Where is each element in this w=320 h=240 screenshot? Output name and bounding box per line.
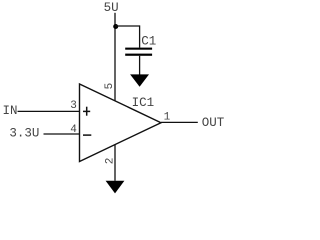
svg-text:C1: C1 [141,35,156,49]
wire C1 top stem (vertical) [139,25,141,47]
svg-text:IN: IN [3,104,18,118]
junction dot [113,24,118,29]
svg-text:3: 3 [70,100,77,112]
svg-text:1: 1 [164,111,171,123]
svg-text:5: 5 [104,83,116,90]
wire 3.3V to pin 4 [44,133,80,135]
minus mark (inverting input) [83,134,91,136]
wire pin 1 to OUT [161,121,198,123]
wire IN to pin 3 [18,110,80,112]
svg-text:OUT: OUT [202,116,225,130]
svg-text:5U: 5U [104,1,119,15]
ground symbol below pin 2 [106,181,125,194]
wire 5V rail / pin 5 stem [114,13,116,101]
svg-text:IC1: IC1 [132,96,155,110]
op-amp IC1 triangle [80,84,162,162]
svg-text:3.3U: 3.3U [9,127,39,141]
wire C1 bottom stem [139,56,141,75]
ground symbol below C1 [130,74,149,86]
wire pin 2 stem [114,145,116,181]
plus mark (non-inverting input) [83,107,90,116]
svg-text:4: 4 [70,124,77,136]
capacitor C1 plates [125,48,152,56]
wire junction to C1 (horizontal) [115,25,140,27]
